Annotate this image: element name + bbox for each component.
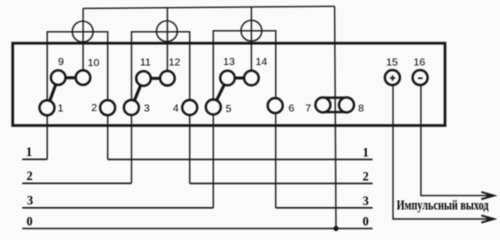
link terminal 9 to terminal 1 (47, 78, 58, 108)
link terminal 11 to terminal 12 (144, 77, 168, 80)
wire terminal 4 down to line 2 output (189, 112, 191, 183)
terminal 4 (182, 100, 197, 115)
svg-text:0: 0 (363, 214, 369, 228)
link obround terminal 7 to terminal 8 (323, 96, 347, 98)
svg-text:12: 12 (169, 57, 181, 69)
svg-text:9: 9 (58, 56, 64, 68)
svg-text:Импульсный выход: Импульсный выход (397, 198, 489, 213)
meter terminal box (13, 43, 445, 125)
wire terminal 16 down to upper impulse arrow (421, 84, 489, 196)
svg-text:2: 2 (26, 169, 32, 183)
terminal 14 (244, 71, 259, 86)
wire terminal 10 up to top bus (82, 8, 84, 72)
line 2 input run (22, 182, 131, 184)
loop circle over phase A jumper (72, 21, 93, 42)
svg-text:4: 4 (173, 102, 179, 114)
svg-text:1: 1 (26, 145, 32, 159)
top bus wire from terminal 10/12/14 loops to neutral link (83, 6, 335, 8)
terminal 13 (220, 71, 235, 86)
svg-text:2: 2 (91, 102, 97, 114)
link terminal 11 to terminal 3 (132, 78, 144, 107)
link terminal 13 to terminal 5 (213, 78, 227, 107)
svg-text:1: 1 (363, 145, 369, 159)
terminal 7 (315, 97, 330, 112)
impulse arrowhead lower (481, 215, 494, 222)
neutral wire from top bus down through link 7-8 to line 0 (335, 6, 336, 228)
terminal 8 (339, 97, 354, 112)
loop circle over phase C jumper (241, 20, 262, 41)
svg-text:1: 1 (58, 102, 64, 114)
svg-text:0: 0 (26, 214, 32, 228)
svg-text:15: 15 (386, 56, 398, 68)
wire terminal 1 down to line 1 (46, 112, 48, 159)
wire terminal 12 up to top bus (166, 8, 168, 72)
junction dot neutral to line 0 (333, 226, 338, 231)
svg-text:3: 3 (363, 194, 369, 208)
terminal 15 plus (385, 70, 400, 85)
wire terminal 3 down to line 2 (131, 112, 133, 183)
loop circle over phase B jumper (157, 21, 178, 42)
svg-text:3: 3 (144, 103, 150, 115)
svg-text:5: 5 (226, 103, 232, 115)
svg-text:10: 10 (88, 57, 100, 69)
terminal 12 (160, 71, 175, 86)
impulse arrowhead upper (481, 192, 494, 199)
terminal 2 (100, 100, 115, 115)
terminal 6 (268, 98, 283, 113)
terminal 3 (124, 100, 139, 115)
phase B jumper wire terminal 3 over to terminal 4 (132, 32, 190, 101)
svg-text:11: 11 (140, 57, 151, 69)
terminal 16 minus (413, 70, 428, 85)
svg-text:16: 16 (414, 56, 426, 68)
line 1 input stub (22, 158, 47, 160)
terminal 11 (136, 71, 151, 86)
svg-text:2: 2 (363, 169, 369, 183)
line 0 neutral run (22, 228, 372, 230)
wire terminal 6 down to line 3 output (275, 110, 277, 208)
terminal 9 (51, 70, 66, 85)
terminal 1 (40, 100, 55, 115)
phase A jumper wire terminal 1 over to terminal 2 (47, 32, 107, 101)
svg-text:8: 8 (358, 103, 364, 115)
terminal 5 (206, 100, 221, 115)
wire terminal 5 down to line 3 (212, 112, 214, 208)
line 1 output run (108, 158, 373, 160)
wire terminal 15 down to lower impulse arrow (393, 84, 489, 219)
line 2 output run (190, 182, 373, 184)
terminal 10 (76, 70, 91, 85)
svg-text:14: 14 (256, 56, 268, 68)
phase C jumper wire terminal 5 over to terminal 6 (213, 31, 275, 101)
svg-text:6: 6 (288, 103, 294, 115)
svg-text:7: 7 (305, 103, 311, 115)
wire terminal 2 down to line 1 output (107, 112, 109, 159)
svg-text:3: 3 (27, 194, 33, 208)
line 3 output run (276, 207, 373, 209)
link terminal 13 to terminal 14 (228, 77, 252, 80)
line 3 input run (22, 207, 213, 209)
wire terminal 14 up to top bus (250, 7, 252, 72)
link terminal 9 to terminal 10 (58, 76, 83, 79)
svg-text:13: 13 (223, 56, 235, 68)
